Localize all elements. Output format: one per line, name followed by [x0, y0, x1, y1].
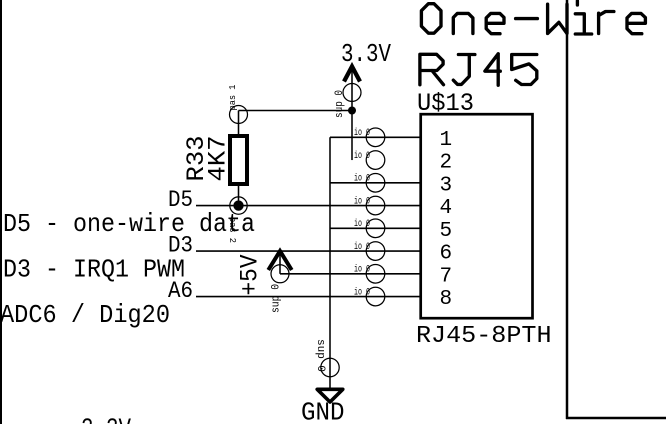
svg-text:D3 - IRQ1 PWM: D3 - IRQ1 PWM: [3, 256, 185, 285]
e: [486, 13, 504, 33]
svg-text:6: 6: [440, 243, 453, 266]
svg-text:2: 2: [440, 152, 453, 175]
svg-text:io 0: io 0: [354, 241, 370, 253]
svg-text:io 0: io 0: [354, 218, 370, 230]
n: [453, 13, 473, 33]
svg-text:+5V: +5V: [236, 255, 265, 296]
pin 4 circle: [366, 196, 385, 215]
svg-text:io 0: io 0: [354, 195, 370, 207]
pin 8 circle: [366, 287, 385, 306]
svg-text:ADC6 / Dig20: ADC6 / Dig20: [0, 301, 170, 330]
pin 6 circle: [366, 242, 385, 261]
supply +5V pin circle: [271, 265, 289, 283]
GND pin circle: [321, 358, 339, 376]
resistor R33 body: [230, 136, 247, 184]
connector U$13 body: [421, 114, 533, 318]
title line 2 "RJ45": [420, 54, 537, 85]
R: [420, 54, 444, 84]
supply 3.3V pin circle: [343, 84, 361, 102]
svg-text:3.3V: 3.3V: [81, 414, 131, 424]
i: [575, 1, 591, 34]
e: [627, 13, 645, 33]
svg-text:8: 8: [440, 288, 453, 311]
svg-text:GND: GND: [301, 398, 345, 424]
4: [485, 54, 500, 85]
svg-text:io 0: io 0: [354, 264, 370, 276]
svg-text:4: 4: [440, 197, 453, 220]
wire pin 1 to bus: [330, 136, 422, 138]
svg-text:io 0: io 0: [354, 127, 370, 139]
svg-text:io 0: io 0: [354, 173, 370, 185]
J: [453, 55, 475, 85]
wire 3.3V horizontal to resistor: [239, 110, 353, 112]
frame bottom-right horizontal: [566, 417, 666, 420]
svg-text:5: 5: [440, 220, 453, 243]
supply +5V arrow: [268, 251, 291, 274]
supply 3.3V arrow: [344, 67, 360, 111]
svg-text:7: 7: [440, 265, 453, 288]
svg-text:4K7: 4K7: [204, 136, 233, 182]
svg-text:3: 3: [440, 174, 453, 197]
pin 2 circle: [366, 151, 385, 170]
r: [599, 12, 614, 34]
svg-text:sup 0: sup 0: [314, 339, 326, 372]
pin 7 circle: [366, 265, 385, 284]
hyphen: [516, 17, 538, 20]
ground symbol: [317, 389, 343, 402]
svg-text:sup 0: sup 0: [271, 284, 283, 313]
svg-text:sup 0: sup 0: [334, 90, 346, 118]
wire net A6 to pin 8: [196, 296, 422, 298]
svg-text:D5 - one-wire data: D5 - one-wire data: [3, 210, 255, 239]
svg-text:io 0: io 0: [354, 150, 370, 162]
pin 1 circle: [366, 128, 385, 147]
wire 3.3V vertical to pin 2: [351, 111, 353, 161]
resistor R33 top pin circle: [230, 106, 248, 124]
wire net D5 to pin 4: [196, 205, 422, 207]
wire net D3 to pin 6: [196, 250, 422, 252]
frame left border: [0, 0, 2, 424]
junction node D5: [233, 200, 243, 210]
svg-text:io 0: io 0: [354, 286, 370, 298]
wire +5V to pin 7: [280, 273, 422, 275]
W: [548, 4, 567, 33]
frame right border vertical: [566, 0, 569, 419]
resistor R33 bottom pin wire: [238, 184, 240, 206]
resistor R33 bottom pin circle: [230, 197, 247, 214]
pin 3 circle: [366, 174, 385, 193]
5: [512, 55, 537, 85]
wire pin 5 to bus: [330, 227, 422, 229]
O: [421, 4, 441, 34]
pin 5 circle: [366, 219, 385, 238]
junction node 3.3V: [348, 107, 356, 115]
wire GND bus vertical: [329, 137, 331, 389]
svg-text:RJ45-8PTH: RJ45-8PTH: [416, 323, 552, 350]
resistor R33 top pin wire: [238, 111, 240, 137]
title line 1 "One-Wire": [421, 1, 645, 34]
svg-text:3.3V: 3.3V: [341, 39, 391, 69]
svg-text:1: 1: [440, 129, 453, 152]
wire pin 3 to bus: [330, 182, 422, 184]
svg-text:pas 1: pas 1: [227, 84, 238, 110]
